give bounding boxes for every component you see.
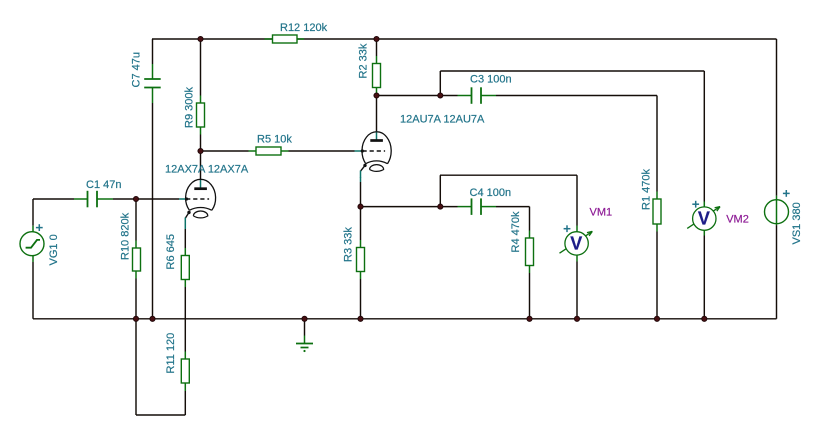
svg-text:C1 47n: C1 47n	[86, 179, 121, 191]
svg-text:R9 300k: R9 300k	[184, 87, 196, 128]
svg-text:C4 100n: C4 100n	[470, 187, 512, 199]
svg-text:C3 100n: C3 100n	[470, 74, 512, 86]
svg-text:12AX7A 12AX7A: 12AX7A 12AX7A	[165, 163, 249, 175]
svg-text:R4 470k: R4 470k	[510, 211, 522, 252]
svg-text:R5 10k: R5 10k	[257, 134, 292, 146]
svg-text:C7 47u: C7 47u	[131, 52, 143, 87]
svg-text:R10 820k: R10 820k	[120, 212, 132, 260]
svg-text:R1 470k: R1 470k	[641, 169, 653, 210]
svg-text:VS1 380: VS1 380	[791, 202, 803, 244]
svg-text:VG1 0: VG1 0	[48, 234, 60, 265]
svg-text:R6 645: R6 645	[165, 234, 177, 269]
svg-text:R2 33k: R2 33k	[358, 43, 370, 78]
svg-text:VM1: VM1	[590, 207, 613, 219]
svg-text:V: V	[570, 233, 582, 253]
svg-text:VM2: VM2	[726, 213, 749, 225]
svg-text:R12 120k: R12 120k	[280, 22, 328, 34]
svg-text:R3 33k: R3 33k	[343, 227, 355, 262]
svg-text:R11 120: R11 120	[165, 333, 177, 374]
svg-text:V: V	[698, 209, 710, 229]
svg-text:12AU7A 12AU7A: 12AU7A 12AU7A	[400, 114, 485, 126]
